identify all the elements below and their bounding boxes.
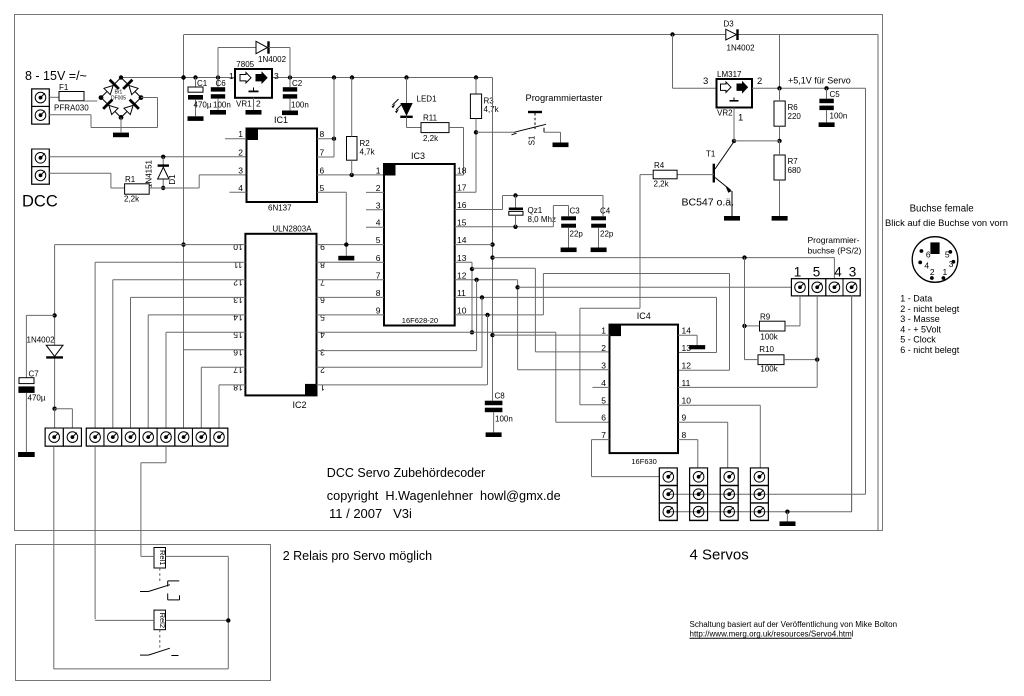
svg-text:5 - Clock: 5 - Clock: [900, 335, 936, 345]
svg-text:14: 14: [233, 312, 243, 322]
svg-text:12: 12: [457, 270, 467, 280]
svg-text:8: 8: [682, 430, 687, 440]
svg-text:6N137: 6N137: [268, 204, 292, 213]
svg-text:8 - 15V =/~: 8 - 15V =/~: [25, 69, 87, 83]
svg-text:R4: R4: [654, 161, 665, 170]
svg-text:LM317: LM317: [717, 70, 742, 79]
svg-text:16: 16: [233, 347, 243, 357]
svg-text:2: 2: [757, 76, 762, 87]
svg-text:http://www.merg.org.uk/resourc: http://www.merg.org.uk/resources/Servo4.…: [690, 630, 854, 639]
svg-text:7: 7: [601, 430, 606, 440]
svg-text:1N4002: 1N4002: [27, 336, 56, 345]
svg-text:1: 1: [943, 267, 948, 277]
svg-text:18: 18: [233, 382, 243, 392]
svg-text:Programmiertaster: Programmiertaster: [526, 93, 603, 103]
svg-text:8,0 Mhz: 8,0 Mhz: [528, 215, 556, 224]
svg-text:6: 6: [320, 295, 325, 305]
svg-text:Programmier-: Programmier-: [808, 235, 860, 245]
svg-text:4: 4: [238, 183, 243, 193]
svg-text:22p: 22p: [570, 230, 584, 239]
svg-text:4,7k: 4,7k: [484, 105, 500, 114]
svg-text:18: 18: [457, 166, 467, 176]
svg-text:C7: C7: [29, 370, 40, 379]
svg-text:11: 11: [457, 288, 466, 298]
svg-text:12: 12: [682, 361, 692, 371]
svg-text:8: 8: [320, 129, 325, 139]
svg-text:11: 11: [682, 378, 691, 388]
svg-text:buchse (PS/2): buchse (PS/2): [808, 246, 862, 256]
svg-text:14: 14: [682, 326, 692, 336]
svg-text:C1: C1: [197, 79, 208, 88]
svg-text:D1: D1: [168, 174, 177, 185]
svg-text:R7: R7: [788, 157, 799, 166]
svg-text:1N4002: 1N4002: [727, 44, 756, 53]
svg-text:4: 4: [320, 330, 325, 340]
svg-text:9: 9: [320, 242, 325, 252]
svg-text:220: 220: [788, 112, 802, 121]
svg-text:PFRA030: PFRA030: [54, 104, 89, 113]
svg-text:13: 13: [457, 253, 467, 263]
svg-text:VR2: VR2: [717, 109, 733, 118]
svg-text:+5,1V für Servo: +5,1V für Servo: [788, 76, 851, 86]
svg-text:1: 1: [601, 326, 606, 336]
svg-text:D3: D3: [724, 20, 735, 29]
svg-text:5: 5: [813, 265, 821, 280]
svg-text:5: 5: [320, 312, 325, 322]
svg-text:4 Servos: 4 Servos: [690, 547, 749, 564]
svg-text:1: 1: [238, 129, 243, 139]
svg-text:13: 13: [233, 295, 243, 305]
svg-text:17: 17: [233, 365, 243, 375]
svg-text:3: 3: [703, 76, 708, 87]
svg-text:VR1: VR1: [236, 100, 252, 109]
svg-text:IC3: IC3: [411, 151, 425, 161]
svg-text:2: 2: [238, 148, 243, 158]
svg-text:100n: 100n: [291, 101, 309, 110]
svg-text:S1: S1: [528, 135, 537, 145]
svg-text:8: 8: [376, 288, 381, 298]
svg-text:7: 7: [320, 148, 325, 158]
svg-text:4 - + 5Volt: 4 - + 5Volt: [900, 324, 941, 334]
svg-text:470µ: 470µ: [28, 394, 46, 403]
svg-text:6: 6: [376, 253, 381, 263]
svg-text:1: 1: [738, 113, 743, 124]
svg-text:4: 4: [601, 378, 606, 388]
svg-text:3: 3: [274, 71, 279, 81]
svg-text:16F630: 16F630: [631, 457, 656, 466]
svg-text:1 - Data: 1 - Data: [900, 294, 932, 304]
svg-text:Blick auf die Buchse von vorn: Blick auf die Buchse von vorn: [885, 217, 1008, 228]
svg-text:470µ: 470µ: [194, 101, 212, 110]
svg-text:2 - nicht belegt: 2 - nicht belegt: [900, 304, 960, 314]
svg-text:6: 6: [320, 165, 325, 175]
svg-text:2: 2: [376, 183, 381, 193]
svg-text:ULN2803A: ULN2803A: [272, 225, 312, 234]
svg-text:680: 680: [788, 166, 802, 175]
svg-text:6: 6: [926, 250, 931, 260]
svg-text:4: 4: [834, 265, 842, 280]
svg-text:DCC: DCC: [22, 193, 58, 211]
svg-text:16: 16: [457, 200, 467, 210]
svg-text:10: 10: [682, 395, 692, 405]
svg-text:10: 10: [233, 242, 243, 252]
svg-text:3: 3: [320, 347, 325, 357]
svg-text:7: 7: [376, 270, 381, 280]
svg-text:2: 2: [601, 343, 606, 353]
svg-text:7: 7: [320, 277, 325, 287]
svg-text:2,2k: 2,2k: [124, 195, 140, 204]
svg-text:R11: R11: [423, 114, 438, 123]
svg-text:1: 1: [794, 265, 802, 280]
svg-text:2: 2: [320, 365, 325, 375]
svg-text:DCC Servo Zubehördecoder: DCC Servo Zubehördecoder: [327, 466, 485, 480]
svg-text:100n: 100n: [830, 112, 848, 121]
svg-text:C4: C4: [600, 207, 611, 216]
svg-text:14: 14: [457, 235, 467, 245]
svg-text:R6: R6: [788, 103, 799, 112]
svg-text:IC1: IC1: [274, 115, 288, 125]
svg-text:Buchse female: Buchse female: [910, 204, 974, 215]
svg-text:4,7k: 4,7k: [360, 148, 376, 157]
svg-text:100k: 100k: [760, 333, 778, 342]
svg-text:4: 4: [924, 260, 929, 270]
svg-text:16F628-20: 16F628-20: [402, 316, 438, 325]
svg-text:100k: 100k: [760, 365, 778, 374]
svg-text:IC2: IC2: [293, 400, 307, 410]
svg-text:IC4: IC4: [637, 311, 651, 321]
svg-text:6 - nicht belegt: 6 - nicht belegt: [900, 345, 960, 355]
svg-text:3: 3: [849, 265, 857, 280]
svg-text:LED1: LED1: [417, 95, 438, 104]
svg-text:1: 1: [320, 382, 325, 392]
svg-text:C6: C6: [216, 79, 227, 88]
svg-text:DF005: DF005: [111, 96, 126, 102]
svg-text:Qz1: Qz1: [528, 206, 543, 215]
svg-text:T1: T1: [706, 150, 716, 159]
svg-text:2,2k: 2,2k: [423, 134, 439, 143]
svg-text:5: 5: [376, 235, 381, 245]
svg-text:5: 5: [601, 395, 606, 405]
svg-text:3 - Masse: 3 - Masse: [900, 314, 940, 324]
svg-text:C3: C3: [570, 207, 581, 216]
svg-text:3: 3: [949, 259, 954, 269]
svg-text:2: 2: [930, 267, 935, 277]
svg-text:12: 12: [233, 277, 243, 287]
svg-text:2: 2: [256, 99, 261, 109]
svg-text:C2: C2: [292, 79, 303, 88]
svg-text:R10: R10: [759, 345, 774, 354]
svg-text:Rel1: Rel1: [158, 550, 167, 565]
svg-text:9: 9: [682, 413, 687, 423]
svg-text:2 Relais pro Servo möglich: 2 Relais pro Servo möglich: [283, 549, 432, 563]
svg-text:4: 4: [376, 218, 381, 228]
svg-text:6: 6: [601, 413, 606, 423]
svg-text:100n: 100n: [213, 101, 231, 110]
svg-text:Schaltung basiert auf der Verö: Schaltung basiert auf der Veröffentlichu…: [690, 620, 898, 629]
svg-text:2,2k: 2,2k: [654, 180, 670, 189]
svg-text:22p: 22p: [600, 230, 614, 239]
svg-text:copyright H.Wagenlehner howl: copyright H.Wagenlehner howl@gmx.de: [327, 489, 561, 503]
svg-text:1: 1: [229, 71, 234, 81]
svg-text:BC547 o.ä.: BC547 o.ä.: [682, 197, 735, 209]
svg-text:5: 5: [320, 183, 325, 193]
svg-text:8: 8: [320, 260, 325, 270]
svg-text:R1: R1: [125, 175, 136, 184]
svg-text:9: 9: [376, 305, 381, 315]
svg-text:11 / 2007 V3i: 11 / 2007 V3i: [329, 506, 412, 521]
svg-text:7805: 7805: [236, 60, 254, 69]
svg-text:C5: C5: [830, 90, 841, 99]
svg-text:10: 10: [457, 305, 467, 315]
svg-text:1N4002: 1N4002: [258, 55, 287, 64]
svg-text:15: 15: [457, 217, 467, 227]
svg-text:1: 1: [376, 166, 381, 176]
svg-text:C8: C8: [495, 392, 506, 401]
svg-text:100n: 100n: [495, 415, 513, 424]
svg-text:15: 15: [233, 330, 243, 340]
svg-text:17: 17: [457, 183, 467, 193]
svg-text:R9: R9: [760, 313, 771, 322]
svg-text:3: 3: [601, 361, 606, 371]
svg-text:3: 3: [238, 165, 243, 175]
svg-text:11: 11: [233, 260, 242, 270]
svg-text:3: 3: [376, 200, 381, 210]
svg-text:F1: F1: [59, 83, 69, 92]
